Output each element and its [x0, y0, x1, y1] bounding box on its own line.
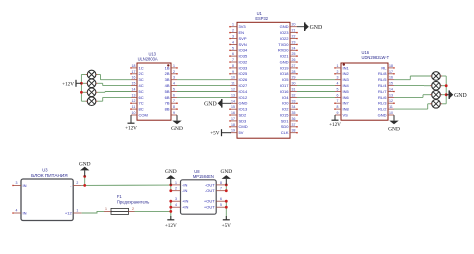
svg-text:10: 10	[132, 111, 136, 115]
U1 pin 28 IO18 (right)	[280, 70, 298, 76]
power supply unit U3 body	[21, 168, 73, 221]
svg-text:3B: 3B	[165, 77, 170, 82]
svg-text:6C: 6C	[139, 95, 144, 100]
svg-text:14: 14	[231, 99, 235, 103]
U8 pin 5 +OUT (right)	[204, 203, 226, 209]
svg-text:RL/8: RL/8	[378, 71, 387, 76]
svg-text:RXD0: RXD0	[278, 48, 289, 53]
U1 pin 5 IO34 (left)	[229, 46, 248, 52]
svg-text:36: 36	[292, 117, 296, 121]
svg-text:20: 20	[292, 23, 296, 27]
svg-text:UDN2982LW-T: UDN2982LW-T	[362, 55, 390, 60]
svg-text:GND: GND	[388, 126, 400, 132]
U16 pin 16 RL/5 (right)	[378, 76, 394, 82]
U8 pin 2 -IN (left)	[171, 187, 188, 193]
svg-text:2: 2	[132, 207, 134, 211]
svg-text:VS: VS	[343, 112, 349, 117]
U16 pin 6 IN6 (left)	[335, 93, 350, 99]
svg-text:10: 10	[389, 111, 393, 115]
svg-text:10: 10	[231, 76, 235, 80]
svg-text:21: 21	[292, 29, 296, 33]
svg-text:18: 18	[389, 64, 393, 68]
svg-text:1: 1	[76, 209, 78, 213]
svg-text:29: 29	[292, 76, 296, 80]
svg-text:26: 26	[292, 58, 296, 62]
U1 pin 35 IO15 (right)	[280, 111, 298, 118]
wire tie U8 -OUT pins to GND	[225, 185, 227, 191]
wire U1 IO pin to U16 IN3	[297, 79, 335, 81]
svg-text:IO18: IO18	[280, 71, 289, 76]
U13 pin 15 4C (left)	[131, 82, 144, 88]
svg-text:IN2: IN2	[343, 71, 350, 76]
U1 pin 24 RXD0 (right)	[278, 46, 298, 52]
ground symbol at U1 pin 20 GND	[297, 22, 322, 31]
U1 pin 37 SD0 (right)	[281, 123, 298, 129]
svg-text:28: 28	[292, 70, 296, 74]
svg-text:33: 33	[292, 99, 296, 103]
svg-text:SD0: SD0	[281, 124, 290, 129]
svg-text:SVP: SVP	[239, 36, 247, 41]
U16 pin 14 RL/7 (right)	[378, 88, 395, 94]
IC U16 UDN2982LW-T body	[341, 50, 390, 120]
svg-text:-OUT: -OUT	[205, 182, 215, 187]
svg-text:8: 8	[173, 105, 175, 109]
svg-text:IO21: IO21	[280, 54, 289, 59]
U13 pin 7 7B (right)	[165, 99, 178, 105]
svg-text:3: 3	[16, 181, 18, 185]
U3 pin 2 minus output (right top)	[70, 181, 81, 188]
svg-text:IO0: IO0	[282, 101, 289, 106]
svg-text:TXD0: TXD0	[278, 42, 289, 47]
+5V supply at U1 pin 19	[210, 129, 231, 137]
svg-text:IN8: IN8	[343, 107, 350, 112]
U1 pin 27 IO19 (right)	[280, 64, 298, 70]
svg-text:13: 13	[132, 93, 136, 97]
lamp L6 (right bank)	[430, 81, 442, 90]
svg-text:4: 4	[337, 82, 339, 86]
svg-text:IO16: IO16	[280, 89, 289, 94]
wire lamp L1 to U13 3C	[98, 75, 131, 80]
svg-text:IO27: IO27	[239, 83, 248, 88]
svg-text:5: 5	[337, 88, 339, 92]
lamp L8 (right bank)	[430, 100, 442, 109]
junction U8 -IN pin2	[169, 189, 172, 192]
svg-text:22: 22	[292, 35, 296, 39]
svg-text:9: 9	[337, 111, 339, 115]
U16 pin 3 IN3 (left)	[335, 76, 350, 82]
svg-text:5V: 5V	[239, 130, 244, 135]
svg-text:GND: GND	[171, 126, 183, 132]
svg-text:17: 17	[389, 70, 393, 74]
wire U16 RL/2 to lamp L8	[394, 104, 430, 109]
svg-text:1: 1	[173, 64, 175, 68]
junction U8 +OUT pin6	[225, 200, 228, 203]
U3 pin 3 IN (left top)	[12, 181, 26, 188]
U1 pin 33 IO0 (right)	[282, 99, 298, 105]
U8 pin 8 -OUT (right)	[205, 181, 226, 187]
svg-text:IO25: IO25	[239, 71, 248, 76]
IC U13 ULN2803A body	[137, 52, 171, 121]
svg-text:5C: 5C	[139, 89, 144, 94]
U16 pin 15 RL/4 (right)	[378, 82, 394, 88]
svg-text:ESP32: ESP32	[255, 16, 268, 21]
svg-text:SD1: SD1	[281, 118, 290, 123]
svg-text:6: 6	[173, 93, 175, 97]
svg-text:5B: 5B	[165, 89, 170, 94]
svg-text:16: 16	[231, 111, 235, 115]
svg-text:4: 4	[175, 203, 177, 207]
svg-text:8B: 8B	[165, 107, 170, 112]
svg-text:7: 7	[232, 58, 234, 62]
svg-text:GND: GND	[280, 59, 289, 64]
U13 pin 6 6B (right)	[165, 93, 177, 99]
junction fuse wire at U8	[169, 210, 172, 213]
U1 pin 15 IO13 (left)	[229, 105, 248, 111]
U1 pin 3 SVP (left)	[229, 35, 247, 41]
svg-text:13: 13	[231, 93, 235, 97]
svg-text:1: 1	[337, 64, 339, 68]
lamp L5 (right bank)	[430, 72, 442, 81]
svg-text:9: 9	[232, 70, 234, 74]
U13 pin 10 COM (left)	[131, 111, 148, 117]
svg-text:6B: 6B	[165, 95, 170, 100]
svg-text:RL/4: RL/4	[378, 83, 387, 88]
ground symbol above U3	[79, 162, 91, 177]
U1 pin 8 IO33 (left)	[229, 64, 248, 70]
svg-text:2: 2	[175, 187, 177, 191]
U1 pin 9 IO25 (left)	[229, 70, 248, 76]
svg-text:+5V: +5V	[210, 131, 220, 137]
svg-text:4: 4	[232, 40, 234, 44]
svg-text:18: 18	[231, 123, 235, 127]
U8 pin 3 +IN (left)	[171, 197, 189, 203]
U13 pin 4 4B (right)	[165, 82, 177, 88]
svg-text:17: 17	[132, 70, 136, 74]
lamp L4 (left bank)	[86, 97, 98, 106]
svg-text:1B: 1B	[165, 65, 170, 70]
svg-text:ULN2803A: ULN2803A	[138, 56, 158, 61]
wire tie U8 -IN pins to GND	[170, 185, 172, 191]
svg-text:6: 6	[232, 52, 234, 56]
+12V supply below U8 left	[165, 216, 177, 229]
U1 pin 18 CMD (left)	[229, 123, 248, 129]
svg-text:8: 8	[220, 181, 222, 185]
U16 pin 5 IN5 (left)	[335, 88, 350, 94]
wire U1 pin 12 IO to U13 5B	[177, 91, 230, 93]
svg-text:8C: 8C	[139, 107, 144, 112]
svg-text:SVN: SVN	[239, 42, 247, 47]
svg-text:32: 32	[292, 93, 296, 97]
ground symbol at right lamp bus	[446, 90, 466, 99]
svg-text:18: 18	[132, 64, 136, 68]
svg-text:RL: RL	[381, 65, 387, 70]
svg-text:IN6: IN6	[343, 95, 350, 100]
U16 pin 12 RL/3 (right)	[378, 99, 395, 105]
U13 pin 14 5C (left)	[131, 88, 144, 94]
U13 pin 2 2B (right)	[165, 70, 178, 76]
junction U8 -IN pin1	[169, 184, 172, 187]
U16 pin 17 RL/8 (right)	[378, 70, 395, 76]
svg-text:F1: F1	[117, 194, 123, 199]
U1 pin 17 SD3 (left)	[229, 117, 247, 123]
svg-text:13: 13	[389, 93, 393, 97]
U1 pin 20 GND (right)	[280, 23, 297, 29]
svg-text:SD3: SD3	[239, 118, 248, 123]
svg-text:IO35: IO35	[239, 54, 248, 59]
svg-text:4C: 4C	[139, 83, 144, 88]
wire left lamp supply bus	[81, 75, 85, 102]
svg-text:GND: GND	[204, 101, 217, 107]
svg-text:+12V: +12V	[125, 125, 137, 131]
U13 pin 9 GND (right)	[171, 111, 177, 115]
svg-text:IN: IN	[23, 183, 27, 188]
svg-text:2: 2	[76, 181, 78, 185]
IC U1 ESP32 module body	[237, 11, 290, 138]
U1 pin 31 IO16 (right)	[280, 88, 297, 94]
svg-text:-IN: -IN	[182, 182, 187, 187]
junction U8 -OUT pin8	[225, 184, 228, 187]
svg-text:IO14: IO14	[239, 89, 248, 94]
U13 pin 16 3C (left)	[131, 76, 144, 82]
svg-text:IN1: IN1	[343, 65, 350, 70]
U1 pin 1 3V3 (left)	[229, 23, 246, 29]
U16 pin 9 VS (left)	[335, 111, 348, 117]
svg-text:IO33: IO33	[239, 65, 248, 70]
svg-text:7B: 7B	[165, 101, 170, 106]
svg-text:IN: IN	[23, 210, 27, 215]
svg-text:+OUT: +OUT	[204, 199, 215, 204]
U1 pin 22 IO22 (right)	[280, 35, 298, 41]
U16 pin 13 RL/6 (right)	[378, 93, 394, 99]
U13 pin 12 7C (left)	[130, 99, 144, 105]
junction on right lamp bus row3	[445, 93, 448, 96]
svg-text:14: 14	[132, 88, 136, 92]
lamp L7 (right bank)	[430, 90, 442, 99]
junction on left lamp bus row2	[80, 82, 83, 85]
svg-text:COM: COM	[139, 112, 148, 117]
wire tie U8 +IN pins to +12V	[170, 201, 172, 220]
svg-text:IO4: IO4	[282, 95, 289, 100]
ground symbol above U8 left	[165, 169, 177, 185]
U16 pin 1 IN1 (left)	[334, 64, 349, 70]
U16 pin 8 IN8 (left)	[334, 105, 349, 111]
svg-text:3: 3	[175, 197, 177, 201]
svg-text:+IN: +IN	[182, 205, 188, 210]
U1 pin 26 GND (right)	[280, 58, 298, 64]
svg-text:19: 19	[231, 129, 235, 133]
svg-text:11: 11	[231, 82, 235, 86]
svg-text:15: 15	[231, 105, 235, 109]
svg-text:5: 5	[220, 203, 222, 207]
wire U16 RL/4 to lamp L6	[394, 85, 430, 87]
svg-text:-IN: -IN	[182, 188, 187, 193]
svg-text:IO26: IO26	[239, 77, 248, 82]
U1 pin 36 SD1 (right)	[281, 117, 298, 123]
svg-text:GND: GND	[280, 24, 289, 29]
svg-text:16: 16	[389, 76, 393, 80]
U1 pin 4 SVN (left)	[229, 40, 247, 46]
svg-text:7: 7	[173, 99, 175, 103]
svg-text:+12V: +12V	[329, 122, 341, 128]
svg-text:7: 7	[220, 187, 222, 191]
U1 pin 38 CLK (right)	[281, 129, 298, 135]
svg-text:37: 37	[292, 123, 296, 127]
wire U1 pin 11 IO to U13 4B	[177, 85, 230, 87]
svg-text:IN5: IN5	[343, 89, 350, 94]
svg-text:1: 1	[232, 23, 234, 27]
junction U8 +OUT pin5	[225, 206, 228, 209]
svg-text:15: 15	[132, 82, 136, 86]
svg-text:30: 30	[292, 82, 296, 86]
svg-text:IO2: IO2	[282, 107, 289, 112]
svg-text:8: 8	[337, 105, 339, 109]
svg-text:IN4: IN4	[343, 83, 350, 88]
svg-text:11: 11	[132, 105, 136, 109]
lamp L2 (left bank)	[86, 79, 98, 88]
U16 pin 18 RL (right)	[381, 64, 394, 70]
svg-text:5: 5	[232, 46, 234, 50]
svg-text:RL/6: RL/6	[378, 95, 387, 100]
svg-text:EN: EN	[239, 30, 245, 35]
U1 pin 10 IO26 (left)	[230, 76, 248, 82]
regulator U8 MP1584EN body	[181, 169, 217, 214]
svg-text:+12V: +12V	[62, 81, 74, 87]
U16 pin 10 GND (right)	[378, 111, 394, 117]
wire tie U8 +OUT pins to +5V	[225, 201, 227, 220]
svg-text:RL/3: RL/3	[378, 101, 387, 106]
svg-text:1C: 1C	[139, 65, 144, 70]
svg-text:14: 14	[389, 88, 393, 92]
wire U1 pin 13 IO to U13 6B	[177, 96, 230, 98]
svg-text:IO22: IO22	[280, 36, 289, 41]
U1 pin 6 IO35 (left)	[229, 52, 248, 58]
svg-text:GND: GND	[165, 169, 177, 175]
U8 pin 4 +IN (left)	[171, 203, 189, 209]
wire U1 IO pin to U16 IN6	[297, 96, 335, 98]
svg-text:GND: GND	[79, 162, 91, 168]
U16 pin 4 IN4 (left)	[335, 82, 350, 88]
U1 pin 23 TXD0 (right)	[278, 40, 298, 46]
U1 pin 21 IO23 (right)	[280, 29, 298, 35]
U3 pin 4 IN (left bottom)	[12, 209, 26, 216]
junction U8 +IN pin4	[169, 206, 172, 209]
svg-text:24: 24	[292, 46, 296, 50]
svg-text:Предохранитель: Предохранитель	[117, 200, 150, 205]
junction on right lamp bus row2	[445, 84, 448, 87]
svg-text:CMD: CMD	[239, 124, 248, 129]
U1 pin 11 IO27 (left)	[230, 82, 248, 88]
svg-text:25: 25	[292, 52, 296, 56]
svg-text:7C: 7C	[139, 101, 144, 106]
lamp L3 (left bank)	[86, 88, 98, 97]
svg-text:U3: U3	[42, 168, 48, 173]
U13 pin 18 1C (left)	[130, 64, 144, 70]
svg-text:2: 2	[173, 70, 175, 74]
svg-text:-OUT: -OUT	[205, 188, 215, 193]
U8 pin 7 -OUT (right)	[205, 187, 226, 193]
U1 pin 25 IO21 (right)	[280, 52, 298, 58]
svg-text:1: 1	[175, 181, 177, 185]
U1 pin 19 5V (left)	[230, 129, 244, 135]
svg-text:27: 27	[292, 64, 296, 68]
U1 pin 13 IO12 (left)	[230, 93, 248, 99]
svg-text:6: 6	[220, 197, 222, 201]
svg-text:11: 11	[389, 105, 393, 109]
svg-text:RL/5: RL/5	[378, 77, 387, 82]
U8 pin 1 -IN (left)	[171, 181, 188, 187]
svg-text:GND: GND	[310, 25, 323, 31]
svg-text:12: 12	[389, 99, 393, 103]
svg-text:SD2: SD2	[239, 113, 248, 118]
U13 pin 17 2C (left)	[130, 70, 144, 76]
U1 pin 16 SD2 (left)	[229, 111, 247, 118]
svg-text:+IN: +IN	[182, 199, 188, 204]
wire lamp L4 to U13 6C	[98, 97, 131, 101]
svg-text:3: 3	[173, 76, 175, 80]
svg-text:1: 1	[105, 207, 107, 211]
U1 pin 29 IO5 (right)	[282, 76, 297, 82]
wire U1 IO pin to U16 IN4	[297, 85, 335, 87]
svg-text:IO17: IO17	[280, 83, 289, 88]
svg-text:GND: GND	[378, 112, 387, 117]
svg-text:4: 4	[16, 209, 18, 213]
wire U16 RL/6 to lamp L7	[394, 95, 430, 98]
svg-text:12: 12	[132, 99, 136, 103]
U16 pin 11 RL/2 (right)	[378, 105, 394, 111]
junction on left lamp bus row3	[80, 91, 83, 94]
svg-text:IO23: IO23	[280, 30, 289, 35]
+12V supply at U13 COM pin	[125, 115, 137, 131]
svg-text:4B: 4B	[165, 83, 170, 88]
svg-text:2B: 2B	[165, 71, 170, 76]
svg-text:5: 5	[173, 88, 175, 92]
ground symbol at U13 pin 9	[171, 115, 183, 132]
svg-text:IO19: IO19	[280, 65, 289, 70]
U1 pin 7 IO32 (left)	[229, 58, 248, 64]
ground symbol at U16 GND pin	[388, 115, 400, 132]
svg-text:+OUT: +OUT	[204, 205, 215, 210]
svg-text:+5V: +5V	[222, 223, 232, 229]
svg-text:35: 35	[292, 111, 296, 115]
U3 pin 1 +12 output (right bottom)	[65, 209, 82, 216]
svg-text:6: 6	[337, 93, 339, 97]
svg-text:34: 34	[292, 105, 296, 109]
svg-text:17: 17	[231, 117, 235, 121]
+12V supply at left lamp bus	[62, 80, 81, 88]
+5V supply below U8 right	[222, 216, 232, 229]
svg-text:15: 15	[389, 82, 393, 86]
svg-text:2: 2	[337, 70, 339, 74]
wire U3 minus to GND net and to U8	[82, 176, 171, 185]
svg-text:8: 8	[232, 64, 234, 68]
svg-text:IO32: IO32	[239, 59, 248, 64]
svg-text:IO5: IO5	[282, 77, 289, 82]
wire right lamp ground bus	[442, 76, 446, 104]
svg-text:38: 38	[292, 129, 296, 133]
U13 pin 11 8C (left)	[130, 105, 144, 111]
svg-text:16: 16	[132, 76, 136, 80]
wire lamp L3 to U13 5C	[98, 91, 131, 94]
svg-text:IO12: IO12	[239, 95, 248, 100]
U1 pin 32 IO4 (right)	[282, 93, 297, 99]
U8 pin 6 +OUT (right)	[204, 197, 226, 203]
lamp L1 (left bank)	[86, 70, 98, 79]
junction on GND riser	[83, 175, 86, 178]
svg-text:MP1584EN: MP1584EN	[193, 174, 214, 179]
svg-text:IO34: IO34	[239, 48, 248, 53]
U16 pin 7 IN7 (left)	[334, 99, 349, 105]
U1 pin 34 IO2 (right)	[282, 105, 298, 111]
